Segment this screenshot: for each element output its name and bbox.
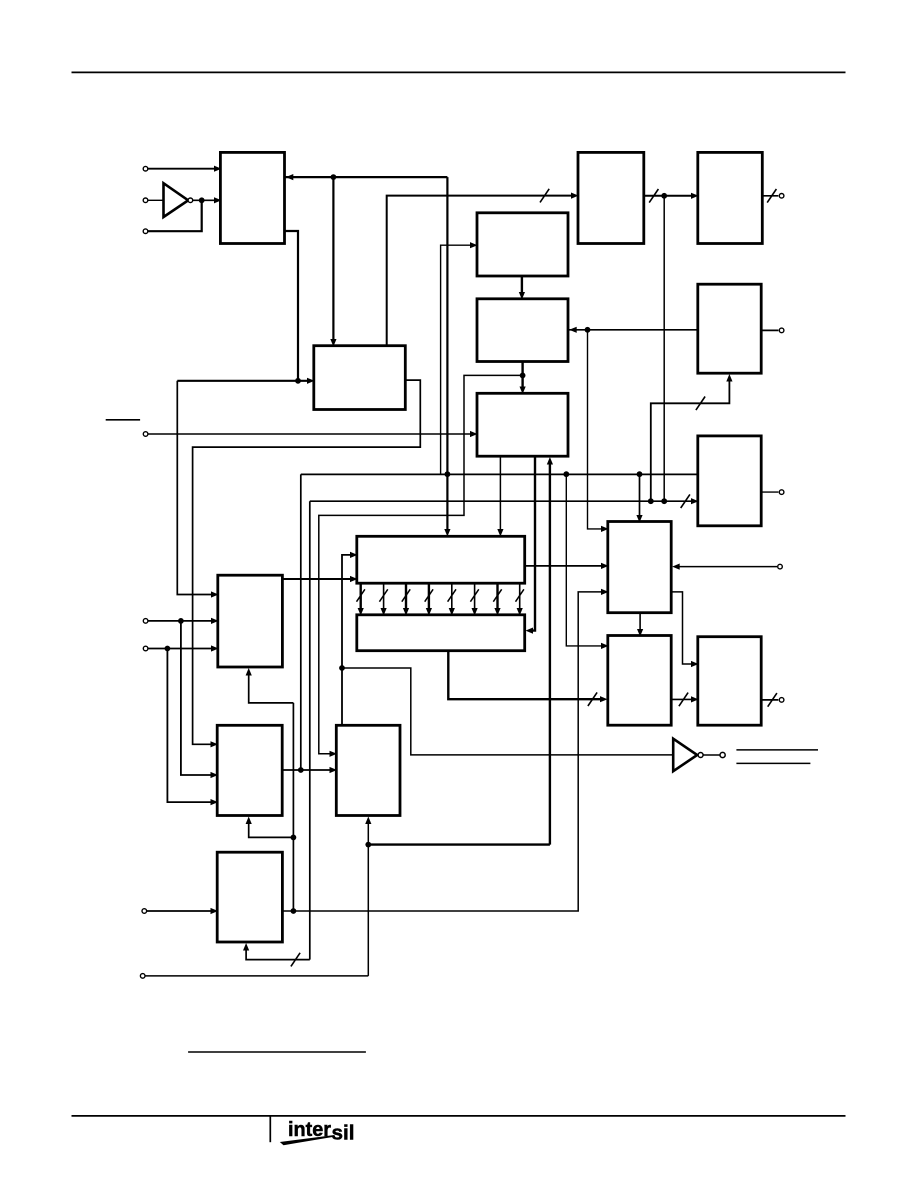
svg-text:sil: sil: [332, 1122, 355, 1144]
